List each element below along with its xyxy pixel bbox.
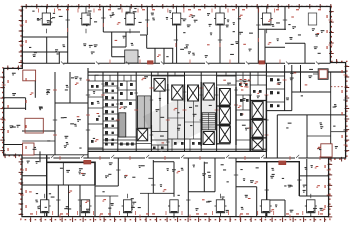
wall lower bbox=[79, 185, 81, 217]
wall lower bbox=[203, 162, 205, 192]
elevator 3 bbox=[203, 83, 214, 100]
window top x=46.4 bbox=[40, 7, 52, 26]
wall lower bbox=[147, 193, 149, 216]
wall right block bbox=[306, 115, 308, 158]
room red square A bbox=[23, 70, 36, 81]
wall lower bbox=[188, 191, 215, 193]
red door hatch lower left bbox=[84, 160, 91, 164]
wall bbox=[47, 51, 68, 53]
wall right cells bbox=[266, 101, 284, 103]
wall annex bbox=[4, 97, 26, 99]
window top x=220 bbox=[214, 7, 226, 26]
wall core vertical bbox=[102, 72, 104, 151]
wall core cell bbox=[250, 84, 266, 86]
wall core cell bbox=[225, 72, 227, 76]
wall lower bbox=[109, 196, 111, 217]
wall bbox=[258, 28, 286, 30]
elevator 10 bbox=[252, 139, 263, 150]
wall wc bbox=[103, 106, 118, 108]
wall core cell bbox=[236, 94, 250, 96]
wall lower bbox=[95, 195, 118, 197]
elevator 9 bbox=[252, 120, 263, 137]
thick room lower left bbox=[47, 162, 95, 185]
wall bbox=[163, 48, 165, 63]
wall inner right bbox=[330, 72, 332, 158]
wall lower bbox=[299, 195, 328, 197]
wall left block bottom bbox=[22, 154, 88, 156]
wall core cell bbox=[109, 75, 111, 81]
wall core cell bbox=[157, 145, 159, 151]
wc bottom row fixtures bbox=[103, 139, 136, 141]
window bottom x=85.5 bbox=[80, 200, 92, 217]
wall core cell bbox=[88, 89, 103, 91]
annotation text specks bbox=[10, 8, 338, 213]
wall bbox=[22, 51, 46, 53]
square room right with red inner bbox=[318, 69, 328, 80]
wall right block bbox=[284, 65, 286, 111]
wall core vertical bbox=[117, 72, 119, 151]
wall shaft rail bbox=[177, 100, 179, 139]
wall left block bbox=[54, 72, 56, 155]
wall lower bbox=[94, 162, 96, 216]
wc fixtures bbox=[105, 82, 114, 141]
wall stub bbox=[313, 73, 318, 75]
wall wc bbox=[103, 134, 118, 136]
wall core cell bbox=[236, 119, 250, 121]
wall core cell bbox=[185, 138, 202, 140]
wall bbox=[111, 32, 113, 57]
wall right cells bbox=[266, 75, 284, 77]
wall bbox=[154, 48, 156, 63]
wall lower bbox=[152, 160, 154, 193]
window bottom x=220.5 bbox=[215, 200, 227, 217]
wall lower bbox=[57, 185, 59, 217]
elevator 8 bbox=[252, 102, 263, 119]
wall core cell bbox=[168, 138, 185, 140]
wall core cell bbox=[236, 139, 250, 141]
wall annex bbox=[4, 107, 26, 109]
wall core bottom bbox=[88, 150, 266, 152]
wall core cell bbox=[88, 96, 103, 98]
wall lower bbox=[300, 175, 329, 177]
wall core cell bbox=[118, 89, 136, 91]
fixtures small core bottom bbox=[91, 83, 262, 149]
dimension ticks on walls bbox=[45, 18, 348, 218]
wall wc bbox=[103, 99, 118, 101]
wall right block bbox=[266, 110, 291, 112]
wall core cell bbox=[151, 75, 167, 77]
wall bbox=[146, 35, 148, 48]
core door ticks bbox=[101, 84, 252, 142]
wall core cell bbox=[151, 144, 167, 146]
wall core cell bbox=[130, 75, 132, 81]
wall shaft rail bbox=[185, 121, 202, 123]
elevator 2a bbox=[172, 85, 183, 100]
wall bbox=[172, 48, 174, 63]
wall lower long bbox=[22, 184, 95, 186]
wall bbox=[238, 7, 240, 64]
wall core cell bbox=[217, 84, 236, 86]
red door hatch lower mid bbox=[279, 161, 286, 165]
wall core cell bbox=[157, 72, 159, 76]
wall right block bbox=[291, 65, 293, 111]
wall bbox=[147, 47, 174, 49]
wall core vertical bbox=[216, 72, 218, 151]
wall lower bbox=[153, 161, 174, 163]
wall lower bbox=[22, 175, 47, 177]
shaft gray bbox=[119, 113, 126, 137]
wall right cells bbox=[307, 135, 331, 137]
elevator 6 bbox=[219, 107, 230, 124]
wall core top inner bbox=[88, 74, 266, 76]
wall bbox=[46, 37, 48, 63]
wall lower bbox=[22, 184, 47, 186]
wall wc bbox=[103, 142, 118, 144]
wall bbox=[140, 34, 147, 36]
wall annex bbox=[25, 98, 27, 110]
wall left block bbox=[22, 140, 55, 142]
wall lower bbox=[306, 159, 308, 196]
wall core cell bbox=[151, 130, 167, 132]
wall lower left long bbox=[46, 155, 48, 217]
elevator 7 bbox=[219, 126, 230, 143]
wall annex bbox=[34, 81, 36, 98]
window top x=130 bbox=[124, 7, 136, 26]
wall core cell bbox=[151, 139, 167, 141]
door hatch red top corridor bbox=[259, 61, 265, 64]
wall lower bbox=[256, 187, 258, 217]
wall core cell bbox=[118, 143, 136, 145]
wall wc bbox=[103, 92, 118, 94]
wall window stem long bbox=[176, 25, 178, 63]
window top x=266.7 bbox=[261, 7, 273, 26]
window bottom x=127.6 bbox=[122, 200, 134, 217]
elevator 2b bbox=[188, 85, 199, 101]
wall right block long bbox=[277, 114, 345, 116]
wall core cell bbox=[88, 80, 136, 82]
wall shaft rail bbox=[159, 91, 161, 131]
window bottom x=310.8 bbox=[305, 200, 317, 217]
window bottom x=44.7 bbox=[39, 200, 51, 217]
door swings bbox=[51, 62, 319, 159]
wall core cell bbox=[236, 80, 250, 82]
wall core left boundary bbox=[87, 68, 89, 158]
wall lower bbox=[62, 162, 64, 185]
wall corridor lower bottom bbox=[22, 157, 329, 159]
room red square C bbox=[23, 143, 34, 155]
elevator 5 bbox=[219, 89, 230, 106]
wall left block bbox=[55, 102, 88, 104]
wall core cell bbox=[217, 75, 236, 77]
wall wc bbox=[103, 127, 118, 129]
wall wc bbox=[103, 113, 118, 115]
wall lower bbox=[68, 185, 70, 217]
window top right plain bbox=[308, 13, 316, 25]
wall right block bbox=[300, 65, 302, 92]
wall bbox=[125, 32, 127, 47]
window top x=176.6 bbox=[171, 7, 183, 26]
stairs 1 bbox=[138, 96, 152, 128]
wall core cell bbox=[94, 75, 96, 81]
red square room corridor right bbox=[321, 144, 332, 157]
wall lower long bbox=[187, 158, 189, 217]
wall core cell bbox=[236, 109, 250, 111]
room shaded gray bbox=[125, 50, 138, 63]
wall core cell bbox=[242, 95, 244, 110]
wall bbox=[146, 7, 148, 36]
wall lower bbox=[267, 199, 285, 201]
wall lower bbox=[117, 158, 119, 186]
none bbox=[39, 185, 41, 217]
wall lower long bbox=[235, 158, 237, 217]
wall left block bbox=[22, 130, 55, 132]
wall bbox=[284, 7, 286, 31]
wall core cell bbox=[257, 72, 259, 85]
wall core cell bbox=[88, 147, 103, 149]
wall core vertical bbox=[249, 72, 251, 151]
wall core vertical bbox=[200, 72, 202, 151]
core gray smudge bbox=[143, 84, 225, 152]
wall core cell bbox=[168, 75, 185, 77]
wall core cell bbox=[171, 139, 173, 151]
wall shaft rail bbox=[193, 101, 195, 139]
wall stub corridor bbox=[39, 151, 41, 162]
wall core cell bbox=[174, 72, 176, 76]
wall core vertical bbox=[135, 72, 137, 151]
wall shaft rail bbox=[168, 117, 185, 119]
wall core cell bbox=[136, 143, 151, 145]
wall lower bbox=[140, 192, 153, 194]
elevator shaft thick walls bbox=[249, 95, 251, 151]
wall lower bbox=[148, 177, 153, 179]
elevator 3b bbox=[203, 132, 214, 145]
wall right cells bbox=[331, 131, 346, 133]
wall bbox=[304, 43, 306, 63]
wall bbox=[264, 30, 266, 63]
wall core cell bbox=[88, 123, 103, 125]
sink fixtures bbox=[120, 83, 133, 105]
window bottom x=265.7 bbox=[260, 200, 272, 217]
door openings corridor bbox=[50, 63, 318, 159]
wall core cell bbox=[242, 72, 244, 81]
wall right block bbox=[276, 115, 278, 158]
wall bbox=[257, 7, 259, 64]
wall bbox=[102, 7, 104, 33]
none bbox=[95, 184, 188, 186]
wall core cell bbox=[123, 75, 125, 81]
wall annex bottom bbox=[4, 144, 29, 146]
thick room lower right bbox=[236, 162, 299, 217]
wall core vertical bbox=[235, 72, 237, 151]
wall core vertical bbox=[167, 72, 169, 151]
wall bbox=[103, 31, 140, 33]
wall lower bbox=[173, 162, 175, 197]
wall lower bbox=[153, 192, 174, 194]
wall core cell bbox=[126, 81, 128, 100]
wall right block bbox=[292, 91, 331, 93]
wall left block bbox=[69, 72, 71, 103]
window top x=86 bbox=[80, 7, 92, 26]
window bottom x=174 bbox=[168, 200, 180, 217]
wall core cell bbox=[88, 107, 103, 109]
wall core right boundary bbox=[265, 63, 267, 158]
door hatch red corridor mid-left bbox=[148, 61, 154, 64]
wall core cell bbox=[189, 139, 191, 151]
wall lower bbox=[236, 186, 257, 188]
wall window stem long bbox=[219, 25, 221, 63]
wall bbox=[265, 46, 285, 48]
wall bbox=[58, 52, 60, 63]
wall lower bbox=[214, 158, 216, 192]
elevator 1 bbox=[154, 78, 165, 91]
wall lower bbox=[95, 185, 118, 187]
wall lower bbox=[284, 200, 286, 217]
right wc fixtures bbox=[270, 78, 280, 107]
wall bbox=[112, 46, 126, 48]
wall wc bbox=[103, 85, 118, 87]
wall wc bbox=[103, 120, 118, 122]
elevator 4 bbox=[137, 129, 148, 141]
wall right cells bbox=[266, 88, 284, 90]
wall core cell bbox=[118, 136, 136, 138]
wall core top bbox=[88, 71, 346, 73]
wall core vertical bbox=[184, 72, 186, 151]
wall core bottom inner bbox=[88, 148, 266, 150]
wall core cell bbox=[118, 99, 136, 101]
wall bbox=[22, 36, 67, 38]
red text cluster core col 236-250 bbox=[240, 79, 251, 91]
room red square B bbox=[25, 118, 43, 133]
wall bbox=[285, 42, 305, 44]
wall bbox=[67, 7, 69, 64]
wall corridor upper top bbox=[22, 62, 330, 64]
wall bbox=[112, 56, 140, 58]
wall core vertical bbox=[150, 72, 152, 151]
stairs 2 bbox=[202, 113, 215, 130]
red dashed line right mid bbox=[331, 86, 346, 88]
red annotation specks bbox=[29, 14, 325, 211]
